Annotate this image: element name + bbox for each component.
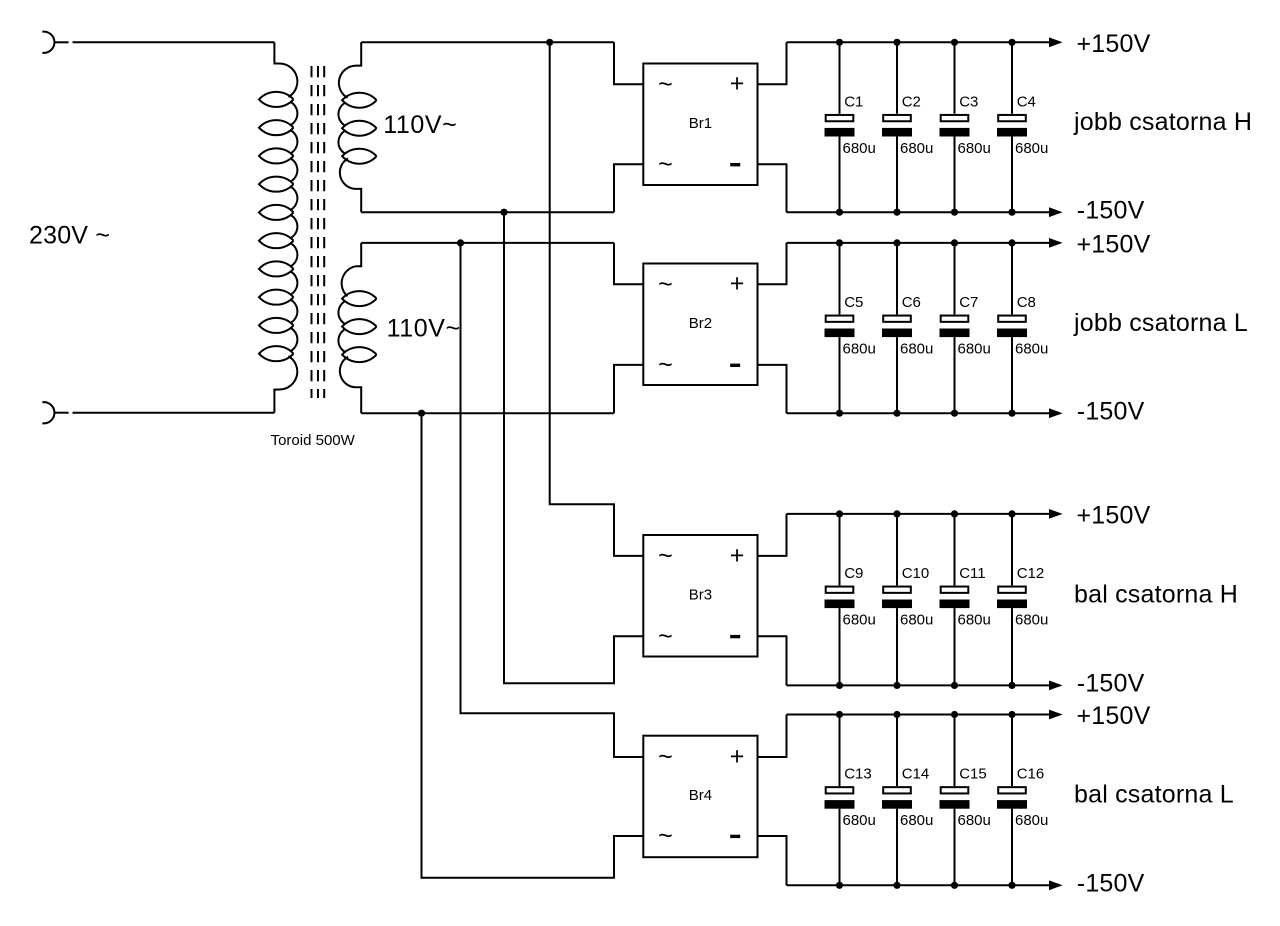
wire (C3 top lead) [954,42,956,114]
svg-text:680u: 680u [900,140,933,157]
svg-text:Toroid 500W: Toroid 500W [271,432,356,449]
svg-text:C15: C15 [959,766,987,783]
svg-text:-150V: -150V [1077,197,1145,225]
Br4 pin - [730,835,740,838]
svg-text:110V~: 110V~ [383,111,457,139]
arrow (-150V rail group 2) [1049,408,1063,418]
wire (C15 bottom lead) [954,809,956,886]
svg-text:+: + [730,270,745,298]
arrow (+150V rail group 4) [1049,710,1063,720]
junction (C16 / -rail) [1008,882,1015,889]
T1 primary turn arc 8 [290,299,297,323]
T1 primary loop 1 [259,92,294,107]
junction (C3 / +rail) [951,39,958,46]
capacitor C16 680u [997,766,1048,830]
svg-text:~: ~ [658,822,673,850]
svg-text:C13: C13 [844,766,872,783]
wire (C9 bottom lead) [839,608,841,685]
wire (C8 top lead) [1011,243,1013,315]
wire (S2 bottom bus to Br4 AC2) [422,413,644,878]
T1 secondary S1 turn arc 1 [338,103,345,126]
transformer T1 primary winding exit [274,356,297,413]
Br1 pin - [730,163,740,166]
wire (C15 top lead) [954,715,956,787]
T1 primary turn arc 1 [290,102,297,126]
capacitor C4 680u [997,93,1048,157]
junction (C5 / +rail) [836,239,843,246]
junction (C14 / -rail) [893,882,900,889]
svg-text:C9: C9 [844,565,863,582]
wire (C5 top lead) [839,243,841,315]
wire (S1 top bus to Br3 AC1) [550,42,644,556]
wire (C16 top lead) [1011,715,1013,787]
wire (C8 bottom lead) [1011,337,1013,413]
svg-text:Br2: Br2 [689,315,712,332]
wire (Br2 AC2 input) [614,365,643,413]
wire (-150V rail group 4) [787,884,1050,886]
wire (+150V rail group 1) [787,41,1050,43]
svg-text:C3: C3 [959,93,978,110]
T1 primary loop 9 [259,318,294,333]
wire (-150V rail group 3) [787,684,1050,686]
terminal J2 (mains input bottom) [42,402,54,423]
capacitor C8 680u [997,294,1048,358]
svg-text:680u: 680u [1015,341,1048,358]
junction (C11 / +rail) [951,510,958,517]
junction (C13 / +rail) [836,711,843,718]
svg-text:680u: 680u [958,341,991,358]
arrow (+150V rail group 3) [1049,509,1063,519]
transformer T1 primary winding entry [274,42,297,97]
wire (C3 bottom lead) [954,137,956,213]
T1 primary loop 2 [259,120,294,135]
junction (C9 / -rail) [836,682,843,689]
wire (C9 top lead) [839,514,841,586]
T1 primary loop 8 [259,290,294,305]
T1 primary turn arc 4 [290,186,297,210]
svg-text:680u: 680u [843,341,876,358]
wire (S1 bottom bus to Br3 AC2) [504,212,643,683]
wire (mains bottom lead stub) [55,412,69,414]
svg-text:680u: 680u [900,341,933,358]
transformer T1 secondary winding S1 entry [339,42,361,98]
wire (C7 top lead) [954,243,956,315]
wire (Br1 AC2 input) [614,164,643,212]
svg-text:Br1: Br1 [689,115,712,132]
svg-text:bal csatorna L: bal csatorna L [1074,781,1234,809]
capacitor C9 680u [825,565,876,629]
svg-text:110V~: 110V~ [387,314,461,342]
wire (C1 top lead) [839,42,841,114]
svg-text:+150V: +150V [1077,702,1151,730]
svg-text:680u: 680u [843,612,876,629]
capacitor C3 680u [940,93,991,157]
svg-text:Br4: Br4 [689,787,712,804]
junction (S2 bottom / Br4 bus) [418,410,425,417]
capacitor C12 680u [997,565,1048,629]
capacitor C1 680u [825,93,876,157]
svg-text:C16: C16 [1017,766,1045,783]
T1 secondary S2 loop 2 [342,319,377,334]
wire (C10 bottom lead) [896,608,898,685]
wire (C11 bottom lead) [954,608,956,685]
svg-text:~: ~ [658,270,673,298]
wire (-150V rail group 1) [787,211,1050,213]
svg-text:~: ~ [658,151,673,179]
junction (C3 / -rail) [951,209,958,216]
wire (Br4 - output) [758,836,787,885]
arrow (+150V rail group 2) [1049,238,1063,248]
wire (C14 bottom lead) [896,809,898,886]
T1 secondary S2 turn arc 2 [338,329,345,352]
wire (C7 bottom lead) [954,337,956,413]
junction (C6 / -rail) [893,410,900,417]
wire (C4 top lead) [1011,42,1013,114]
wire (C10 top lead) [896,514,898,586]
svg-text:~: ~ [658,542,673,570]
junction (C6 / +rail) [893,239,900,246]
svg-text:680u: 680u [900,612,933,629]
T1 secondary S1 turn arc 2 [338,131,345,154]
svg-text:C7: C7 [959,294,978,311]
arrow (-150V rail group 4) [1049,880,1063,890]
wire (mains top lead stub) [55,41,69,43]
T1 primary turn arc 5 [290,215,297,239]
T1 secondary S1 loop 2 [342,121,377,136]
wire (C16 bottom lead) [1011,809,1013,886]
T1 primary loop 5 [259,205,294,220]
svg-text:-150V: -150V [1077,398,1145,426]
junction (C12 / -rail) [1008,682,1015,689]
wire (C5 bottom lead) [839,337,841,413]
svg-text:jobb csatorna H: jobb csatorna H [1073,108,1252,136]
wire (Br1 AC1 input) [614,42,643,84]
wire (C6 top lead) [896,243,898,315]
wire (+150V rail group 4) [787,714,1050,716]
svg-text:680u: 680u [843,140,876,157]
capacitor C2 680u [882,93,933,157]
junction (C11 / -rail) [951,682,958,689]
junction (C16 / +rail) [1008,711,1015,718]
svg-text:jobb csatorna L: jobb csatorna L [1073,309,1248,337]
wire (S2 top to Br2) [361,242,614,244]
junction (C15 / -rail) [951,882,958,889]
svg-text:680u: 680u [958,612,991,629]
capacitor C13 680u [825,766,876,830]
T1 primary loop 3 [259,148,294,163]
wire (+150V rail group 2) [787,242,1050,244]
wire (Br2 - output) [758,365,787,413]
svg-text:+: + [730,541,745,569]
svg-text:-150V: -150V [1077,870,1145,898]
junction (C8 / -rail) [1008,410,1015,417]
svg-text:C12: C12 [1017,565,1045,582]
T1 secondary S1 loop 1 [342,93,377,108]
bridge rectifier Br1 [643,64,757,186]
transformer T1 secondary winding S2 exit [340,357,361,413]
svg-text:bal csatorna H: bal csatorna H [1074,580,1238,608]
wire (+150V rail group 3) [787,513,1050,515]
svg-text:~: ~ [658,70,673,98]
capacitor C10 680u [882,565,933,629]
capacitor C6 680u [882,294,933,358]
arrow (-150V rail group 3) [1049,681,1063,691]
T1 primary loop 4 [259,177,294,192]
wire (C13 top lead) [839,715,841,787]
Br2 pin - [730,364,740,367]
svg-text:C8: C8 [1017,294,1036,311]
junction (C7 / -rail) [951,410,958,417]
svg-text:+150V: +150V [1077,231,1151,259]
junction (C1 / -rail) [836,209,843,216]
svg-text:C14: C14 [902,766,930,783]
wire (C2 bottom lead) [896,137,898,213]
svg-text:C6: C6 [902,294,921,311]
capacitor C7 680u [940,294,991,358]
Br3 pin - [730,635,740,638]
transformer core [312,66,325,398]
svg-text:680u: 680u [1015,140,1048,157]
svg-text:Br3: Br3 [689,586,712,603]
junction (C9 / +rail) [836,510,843,517]
svg-text:C10: C10 [902,565,930,582]
junction (C10 / +rail) [893,510,900,517]
wire (C6 bottom lead) [896,337,898,413]
T1 primary loop 7 [259,261,294,276]
wire (Br2 + output) [758,243,787,284]
wire (C14 top lead) [896,715,898,787]
transformer T1 secondary winding S1 exit [340,158,361,212]
T1 secondary S2 turn arc 1 [338,301,345,324]
svg-text:680u: 680u [958,812,991,829]
wire (Br2 AC1 input) [614,243,643,284]
capacitor C14 680u [882,766,933,830]
wire (C12 top lead) [1011,514,1013,586]
T1 primary turn arc 6 [290,243,297,267]
wire (Br4 + output) [758,715,787,758]
junction (C5 / -rail) [836,410,843,417]
svg-text:680u: 680u [900,812,933,829]
capacitor C11 680u [940,565,991,629]
T1 secondary S1 loop 3 [342,149,377,164]
arrow (+150V rail group 1) [1049,37,1063,47]
svg-text:~: ~ [658,743,673,771]
T1 primary turn arc 9 [290,328,297,352]
wire (C4 bottom lead) [1011,137,1013,213]
svg-text:680u: 680u [1015,812,1048,829]
capacitor C15 680u [940,766,991,830]
wire (S1 top to Br1) [361,41,614,43]
svg-text:+150V: +150V [1077,30,1151,58]
junction (C14 / +rail) [893,711,900,718]
junction (C4 / -rail) [1008,209,1015,216]
wire (Br1 + output) [758,42,787,84]
wire (C12 bottom lead) [1011,608,1013,685]
junction (C8 / +rail) [1008,239,1015,246]
svg-text:C4: C4 [1017,93,1036,110]
wire (-150V rail group 2) [787,412,1050,414]
svg-text:C11: C11 [959,565,985,582]
svg-text:680u: 680u [1015,612,1048,629]
T1 primary loop 10 [259,346,294,361]
svg-text:230V ~: 230V ~ [29,221,110,249]
T1 primary loop 6 [259,233,294,248]
junction (S1 bottom / Br3 bus) [500,209,507,216]
terminal J1 (mains input top) [42,32,54,53]
svg-text:~: ~ [658,622,673,650]
svg-text:680u: 680u [958,140,991,157]
junction (C2 / +rail) [893,39,900,46]
wire (C11 top lead) [954,514,956,586]
junction (C10 / -rail) [893,682,900,689]
junction (S2 top / Br4 bus) [457,239,464,246]
transformer T1 secondary winding S2 entry [342,243,362,296]
bridge rectifier Br3 [643,535,757,657]
wire (mains bottom lead) [73,412,275,414]
T1 primary turn arc 7 [290,271,297,295]
junction (C15 / +rail) [951,711,958,718]
capacitor C5 680u [825,294,876,358]
bridge rectifier Br2 [643,264,757,386]
junction (C12 / +rail) [1008,510,1015,517]
bridge rectifier Br4 [643,736,757,858]
T1 secondary S2 loop 1 [342,291,377,306]
wire (mains top lead) [73,41,275,43]
junction (C1 / +rail) [836,39,843,46]
wire (Br3 - output) [758,636,787,685]
T1 primary turn arc 3 [290,158,297,182]
arrow (-150V rail group 1) [1049,207,1063,217]
wire (C13 bottom lead) [839,809,841,886]
junction (S1 top / Br3 bus) [546,39,553,46]
svg-text:C5: C5 [844,294,863,311]
T1 primary turn arc 2 [290,130,297,154]
wire (S1 bottom to Br1) [361,211,614,213]
svg-text:-150V: -150V [1077,670,1145,698]
wire (S2 top bus to Br4 AC1) [461,243,644,757]
junction (C7 / +rail) [951,239,958,246]
svg-text:+: + [730,742,745,770]
svg-text:~: ~ [658,351,673,379]
junction (C13 / -rail) [836,882,843,889]
junction (C4 / +rail) [1008,39,1015,46]
wire (C1 bottom lead) [839,137,841,213]
wire (S2 bottom to Br2) [361,412,614,414]
svg-text:+: + [730,70,745,98]
svg-text:C1: C1 [844,93,863,110]
T1 secondary S2 loop 3 [342,347,377,362]
junction (C2 / -rail) [893,209,900,216]
svg-text:+150V: +150V [1077,502,1151,530]
svg-text:C2: C2 [902,93,921,110]
wire (C2 top lead) [896,42,898,114]
wire (Br3 + output) [758,514,787,556]
wire (Br1 - output) [758,164,787,212]
svg-text:680u: 680u [843,812,876,829]
